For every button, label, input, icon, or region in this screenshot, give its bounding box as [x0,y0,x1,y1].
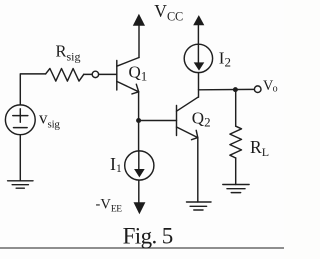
wire input terminal to Q1 base [99,73,117,75]
bottom rule [0,247,284,249]
current source I2 [184,44,212,72]
resistor Rsig [46,69,84,82]
wire node to Q2 base [139,120,177,122]
ground (RL) [223,184,249,186]
-VEE arrowhead [134,202,146,214]
wire I1 to -VEE arrow [138,180,140,203]
VCC arrowhead (I2) [193,15,204,25]
wire node vo down to RL [235,90,237,127]
junction dot node E1 [136,118,141,123]
wire node down to I1 [138,121,140,152]
junction dot node vo [233,87,238,92]
ground (Q2) [187,201,212,203]
wire Q2 collector / I2 bottom [198,73,200,98]
ground (vsig) [8,180,33,182]
input terminal circle [92,71,98,77]
wire Q2 emitter to ground [197,138,199,202]
current source I1 [125,151,154,180]
transistor Q1 [116,61,118,91]
wire RL to ground [235,158,237,185]
output terminal circle [254,86,261,93]
wire I2 top to VCC arrow [197,25,199,44]
voltage source vsig [5,105,35,135]
resistor RL [230,126,242,158]
wire Rsig to input terminal [84,73,93,75]
wire Q1 emitter down to node [138,92,140,121]
svg-text:Fig. 5: Fig. 5 [123,224,173,249]
wire Q1 collector to VCC arrow [138,25,140,58]
transistor Q2 [176,106,178,136]
wire vsig top to Rsig [20,74,45,105]
wire vsig bottom to ground [19,135,21,181]
VCC arrowhead (Q1) [133,14,145,26]
wire rail to output [199,88,255,90]
